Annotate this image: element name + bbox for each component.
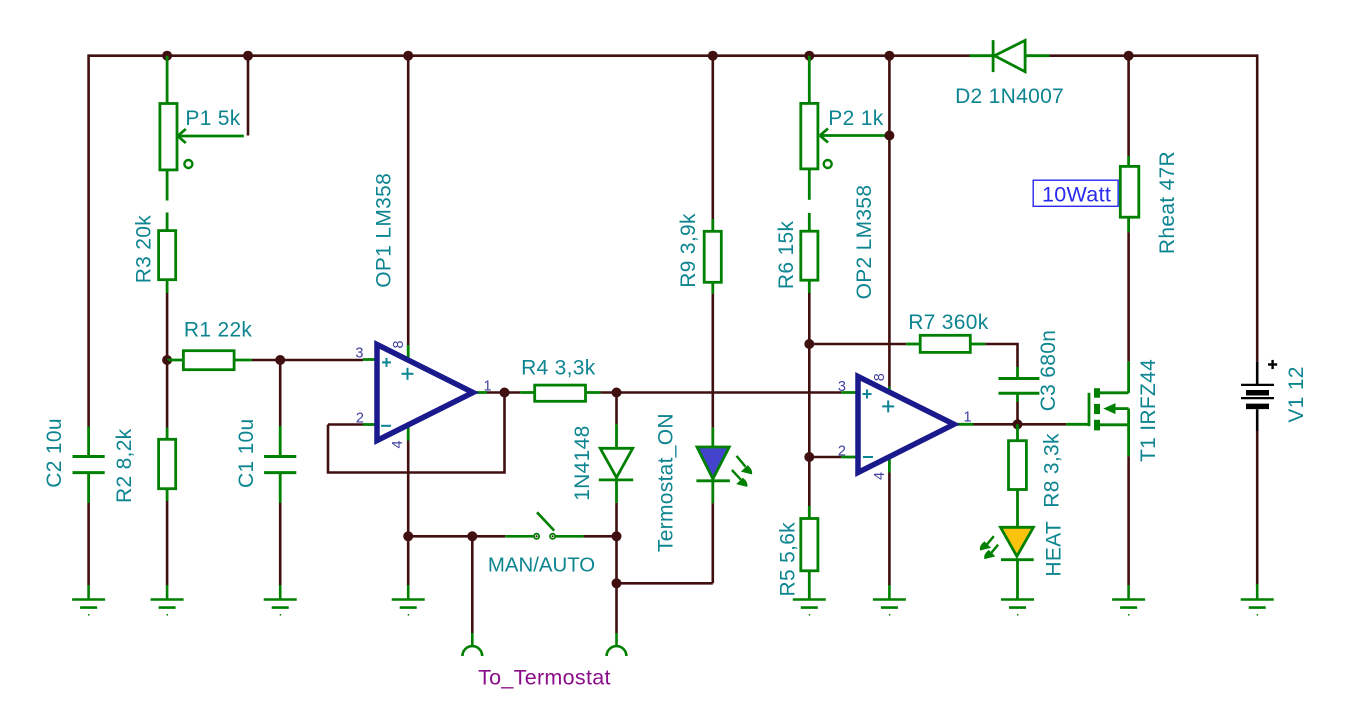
wire R1 node down to R2 [166,360,169,428]
node top rail P1 column [162,51,172,61]
svg-text:2: 2 [838,444,846,460]
svg-text:C2 10u: C2 10u [43,418,66,488]
transistor T1 IRFZ44 [1066,361,1128,456]
ground OP2 pin4 column [873,585,906,615]
svg-text:OP2 LM358: OP2 LM358 [853,185,876,300]
node top rail P2 column [804,51,814,61]
svg-text:HEAT: HEAT [1043,521,1066,577]
terminal To_Termostat left [462,633,482,656]
wire R9 down across row to LED [711,294,714,428]
wire feedback loop [328,393,505,473]
svg-text:R5 5,6k: R5 5,6k [777,522,800,597]
svg-text:8: 8 [391,340,407,348]
ground HEAT LED [1001,600,1034,615]
switch contact dots [536,535,538,537]
capacitor C3 [999,367,1040,402]
node R4 right / 1N4148 top [612,388,622,398]
svg-text:C1 10u: C1 10u [235,418,258,488]
wire R2 to ground [166,501,169,586]
battery V1 [1241,360,1277,431]
svg-text:3: 3 [355,346,363,362]
LED Termostat_ON [696,428,730,504]
LED Termostat_ON arrows [732,456,752,486]
node top rail Rheat column [1124,51,1134,61]
svg-text:1: 1 [484,379,492,395]
wire R7 to C3 corner [985,344,1017,367]
wire C1 top [279,360,282,426]
diode D1 1N4148 [599,424,633,503]
resistor R9 [704,219,721,294]
diode D2 1N4007 [969,40,1049,72]
wire MAN/AUTO row left [408,535,472,538]
op-amp U1 OP1 triangle [377,345,473,441]
svg-text:R2 8,2k: R2 8,2k [113,428,136,503]
svg-text:To_Termostat: To_Termostat [478,666,611,690]
ground T1 source [1112,585,1145,615]
svg-text:R6 15k: R6 15k [775,221,798,290]
svg-text:P1 5k: P1 5k [185,107,240,130]
wire OP2 pin8 from P2 node [888,136,891,387]
svg-text:R3 20k: R3 20k [133,215,156,284]
wire terminal 1 drop [471,536,474,633]
svg-text:10Watt: 10Watt [1042,183,1111,207]
resistor R3 [159,231,176,293]
svg-text:MAN/AUTO: MAN/AUTO [488,555,595,577]
svg-text:OP1 LM358: OP1 LM358 [373,173,396,288]
wire right rail down to battery [1256,54,1259,361]
node LED bottom row [612,578,622,588]
svg-text:Termostat_ON: Termostat_ON [655,413,678,552]
svg-text:R9 3,9k: R9 3,9k [677,213,700,288]
wire R4 to OP2 pin3 [601,391,842,394]
switch SW MAN/AUTO [505,512,583,539]
resistor R1 [167,351,252,370]
wire battery to ground [1256,431,1259,586]
wire OP2 pin2 stub [809,456,841,459]
wire top rail left of D2 [89,54,971,57]
wire C3 to output node [1016,402,1019,424]
resistor R7 [906,335,985,352]
resistor R8 [1009,424,1027,527]
wire 1N4148 top [615,393,618,425]
svg-text:R4 3,3k: R4 3,3k [521,357,596,380]
label box 10Watt [1033,180,1118,206]
wire Rheat to MOSFET drain [1127,232,1130,361]
potentiometer P2 [801,56,886,232]
wire R3 to R1 node [166,293,169,360]
resistor R2 [159,428,176,502]
wire C2 bottom to ground [87,503,90,586]
ground battery [1241,584,1274,615]
svg-text:C3 680n: C3 680n [1037,330,1060,412]
svg-text:V1 12: V1 12 [1285,366,1308,422]
node top rail R9 column [708,51,718,61]
node switch row diode column [612,531,622,541]
op-amp OP1 pin stubs [363,345,487,441]
node OP2 pin2 row [804,452,814,462]
potentiometer P1 [160,56,244,231]
node switch row terminal column [467,531,477,541]
wire C1 bottom to ground [279,503,282,586]
wire node to OP1 pin3 [280,359,363,362]
ground OP1 pin4 column [392,585,425,615]
wire R1 right to node [252,359,280,362]
op-amp OP2 plus/minus marks [863,390,895,458]
wire OP1 pin4 down [407,441,410,537]
wire R9 top from rail [711,56,714,219]
LED HEAT arrows [980,536,998,558]
wire terminal 2 drop [615,583,618,633]
capacitor C1 [264,426,296,503]
wire R6 to R7 node [808,293,811,457]
wire 1N4148 bottom [615,503,618,536]
node OP2 output / R8 / C3 [1013,419,1023,429]
resistor Rheat [1120,156,1139,232]
terminal To_Termostat right [607,633,627,656]
wire OP1 pin8 from rail [407,56,410,345]
ground R5 [793,600,826,615]
wire OP1 output [487,391,520,394]
wire OP2 pin2 node to R5 [808,457,811,506]
svg-text:D2 1N4007: D2 1N4007 [955,85,1064,108]
wire top rail right of D2 [1049,54,1257,57]
svg-text:R7 360k: R7 360k [908,311,989,334]
svg-text:R8 3,3k: R8 3,3k [1041,433,1064,508]
svg-text:1: 1 [964,410,972,426]
op-amp OP2 pin stubs [841,387,973,473]
svg-text:P2 1k: P2 1k [828,107,883,130]
op-amp U2 OP2 triangle [858,377,954,473]
resistor R5 [801,506,818,599]
svg-text:2: 2 [356,411,364,427]
wire LED bottom to corner [711,503,714,583]
node top rail arrow column [243,51,253,61]
wire diode column to LED row [615,536,618,583]
svg-text:1N4148: 1N4148 [571,425,594,500]
node R1 left [162,355,172,365]
wire OP2 output to gate [974,423,1067,426]
wire R7 row left [809,343,906,346]
wire P2 arrow feed [888,56,891,136]
capacitor C2 [73,427,105,504]
node top rail OP2 pin8 column [884,51,894,61]
op-amp OP1 plus/minus marks [381,358,414,426]
wire switch feed left [472,535,505,538]
wire OP2 pin4 down to ground [888,473,891,586]
svg-text:Rheat 47R: Rheat 47R [1156,151,1179,254]
wire OP1 pin2 to feedback [328,423,363,426]
resistor R4 [520,385,600,401]
ground C2 [72,585,105,615]
wire P1 arrow feed [247,56,250,136]
ground R2 [151,585,184,615]
wire OP1 pin4 column to ground [407,536,410,585]
node OP1 output [500,388,510,398]
node P2 arrow [884,131,894,141]
wire MOSFET source to ground [1127,456,1130,585]
node switch row at OP1 pin4 column [403,531,413,541]
svg-text:8: 8 [872,373,888,381]
wire left rail down to C2 [87,54,90,426]
node top rail OP1 pin8 column [403,51,413,61]
ground C1 [264,585,297,615]
svg-text:4: 4 [390,440,406,448]
node R7 row [804,339,814,349]
LED HEAT [1001,527,1034,599]
wire Rheat top [1127,56,1130,156]
svg-text:3: 3 [838,379,846,395]
svg-text:T1 IRFZ44: T1 IRFZ44 [1137,359,1160,462]
node R1 right / C1 top [275,355,285,365]
wire switch to diode column [584,535,617,538]
svg-text:R1 22k: R1 22k [184,319,253,342]
wire LED row horizontal [617,582,713,585]
svg-text:4: 4 [872,472,888,480]
resistor R6 [801,231,818,293]
